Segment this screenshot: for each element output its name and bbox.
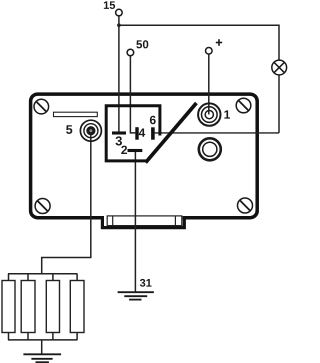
terminal 15	[116, 9, 123, 16]
wire battery plus to terminal 1	[208, 54, 210, 114]
relay K1 housing	[31, 94, 258, 218]
stub to plug 2	[27, 274, 29, 281]
wire bus to ground	[41, 340, 43, 354]
glow plug top bus	[8, 273, 77, 275]
junction node on wire 15	[117, 23, 121, 27]
screw bottom-right	[238, 198, 253, 213]
ground 31 label	[140, 279, 152, 287]
auxiliary terminal	[199, 138, 221, 160]
wire terminal 15 to pin 3	[118, 16, 120, 132]
terminal 15 label	[104, 1, 115, 9]
terminal 5	[80, 120, 101, 141]
wire junction to lamp top	[119, 25, 279, 60]
wire terminal 50 to pin 4	[130, 56, 135, 133]
inner switch box	[106, 106, 160, 161]
pin 3 label	[115, 136, 121, 145]
terminal 1 label	[224, 110, 230, 118]
pin 2 bar	[128, 149, 143, 152]
battery plus terminal	[206, 48, 213, 55]
glow plug bottom bus	[8, 339, 77, 341]
terminal 1	[198, 103, 220, 125]
stub from plug 2	[27, 333, 29, 340]
wire terminal 5 to glow plug bus	[42, 131, 91, 274]
engine ground symbol	[23, 354, 61, 362]
pin 4 label	[139, 129, 145, 137]
stub from plug 1	[8, 333, 10, 340]
plus sign	[216, 39, 222, 46]
label strip on relay	[54, 112, 98, 116]
glow plug R3	[46, 281, 59, 333]
glow plug R1	[2, 281, 15, 333]
screw top-right	[236, 98, 251, 113]
glow plug R4	[70, 281, 84, 333]
screw bottom-left	[35, 199, 50, 214]
stub to plug 3	[52, 274, 54, 281]
pin 6 bar	[151, 127, 155, 139]
stub to plug 1	[8, 274, 10, 281]
terminal 50 label	[136, 40, 148, 48]
terminal 50	[127, 49, 134, 56]
wire lamp bottom down	[278, 75, 280, 133]
glow plug R2	[21, 281, 35, 333]
wire pin 2 to ground 31	[134, 151, 136, 292]
pin 6 label	[150, 116, 156, 124]
relay contact arm	[146, 103, 197, 163]
stub from plug 3	[52, 333, 54, 340]
terminal 5 label	[66, 125, 72, 134]
connector tab at relay bottom	[102, 216, 184, 230]
stub to plug 4	[76, 274, 78, 281]
pin 4 bar	[135, 127, 138, 140]
wire pin 6 to lamp wire	[155, 132, 279, 134]
pin 2 label	[121, 146, 127, 154]
screw top-left	[34, 99, 49, 114]
indicator lamp	[272, 60, 287, 75]
ground 31 symbol	[118, 292, 154, 299]
pin 3 bar	[112, 131, 126, 134]
stub from plug 4	[76, 333, 78, 340]
